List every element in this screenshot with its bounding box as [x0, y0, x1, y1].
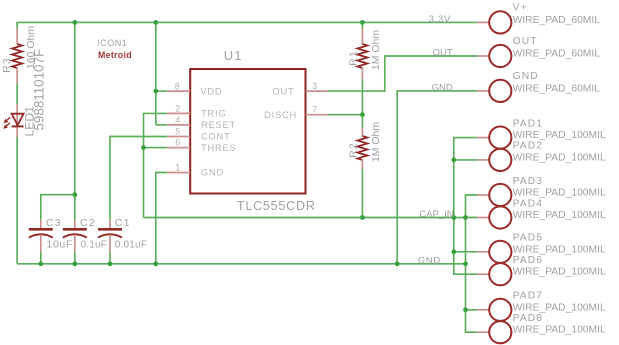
- svg-text:GND: GND: [201, 168, 224, 178]
- svg-text:TRIG: TRIG: [201, 109, 226, 119]
- pin 3 OUT: [272, 81, 327, 96]
- svg-text:WIRE_PAD_60MIL: WIRE_PAD_60MIL: [513, 83, 601, 94]
- svg-text:3.3V: 3.3V: [429, 14, 451, 25]
- pad PAD5 WIRE_PAD_100MIL: [477, 233, 606, 263]
- wire DISCH from pin7: [328, 114, 363, 116]
- svg-text:OUT: OUT: [272, 86, 294, 96]
- svg-text:GND: GND: [418, 255, 441, 266]
- wire CONT to C1: [110, 137, 167, 220]
- svg-text:CAP_IN: CAP_IN: [419, 209, 453, 220]
- wire C3 bottom: [40, 252, 42, 264]
- wire CAP_IN horizontal: [144, 217, 478, 219]
- wire TRIG/THRES column to CAP_IN: [144, 113, 168, 217]
- wire R3 to LED1: [16, 84, 18, 105]
- svg-text:TLC555CDR: TLC555CDR: [237, 199, 316, 213]
- svg-text:PAD6: PAD6: [513, 255, 544, 266]
- svg-text:R2: R2: [347, 142, 359, 158]
- svg-text:GND: GND: [513, 71, 539, 82]
- pad GND WIRE_PAD_60MIL: [477, 71, 600, 102]
- wire LED1 to GND bus: [16, 137, 18, 264]
- svg-text:C3: C3: [46, 217, 62, 229]
- svg-text:PAD4: PAD4: [513, 198, 544, 209]
- svg-text:WIRE_PAD_100MIL: WIRE_PAD_100MIL: [513, 302, 606, 313]
- svg-text:5: 5: [175, 127, 180, 137]
- svg-text:4: 4: [175, 115, 180, 125]
- junction node dots: [38, 20, 468, 312]
- svg-text:5988110107F: 5988110107F: [31, 49, 46, 131]
- svg-text:THRES: THRES: [201, 143, 237, 153]
- svg-text:WIRE_PAD_100MIL: WIRE_PAD_100MIL: [513, 210, 606, 221]
- pin 6 THRES: [167, 138, 236, 153]
- pad V+ WIRE_PAD_60MIL: [477, 2, 600, 33]
- svg-text:8: 8: [175, 82, 180, 92]
- svg-text:R1: R1: [347, 50, 359, 66]
- pin 7 DISCH: [264, 105, 327, 120]
- svg-text:PAD5: PAD5: [513, 233, 544, 244]
- svg-text:1: 1: [175, 163, 180, 173]
- svg-text:PAD7: PAD7: [513, 291, 544, 302]
- op-amp U1 box TLC555CDR: [190, 48, 315, 213]
- svg-text:WIRE_PAD_60MIL: WIRE_PAD_60MIL: [513, 49, 601, 60]
- wire C3 top jog: [41, 195, 75, 220]
- pin 2 TRIG: [167, 103, 226, 118]
- pin 5 CONT: [167, 127, 230, 142]
- svg-text:ICON1: ICON1: [97, 38, 128, 48]
- svg-text:WIRE_PAD_100MIL: WIRE_PAD_100MIL: [513, 152, 606, 163]
- capacitor C2: [63, 217, 107, 252]
- svg-text:PAD1: PAD1: [513, 118, 544, 129]
- svg-text:PAD3: PAD3: [513, 176, 544, 187]
- svg-text:6: 6: [175, 138, 180, 148]
- pad PAD3 WIRE_PAD_100MIL: [477, 176, 606, 206]
- wire C2 bottom: [74, 252, 76, 264]
- resistor R1: [347, 22, 382, 114]
- LED LED1: [4, 49, 47, 137]
- pad PAD8 WIRE_PAD_100MIL: [477, 313, 606, 343]
- svg-text:1M Ohm: 1M Ohm: [370, 30, 382, 71]
- svg-text:PAD2: PAD2: [513, 141, 544, 152]
- svg-text:2: 2: [175, 103, 180, 113]
- svg-text:RESET: RESET: [201, 120, 236, 130]
- svg-text:PAD8: PAD8: [513, 313, 544, 324]
- capacitor C1: [98, 217, 147, 252]
- resistor R3: [1, 26, 37, 84]
- svg-text:3: 3: [312, 81, 317, 91]
- wire GND bus bottom: [17, 263, 465, 265]
- capacitor C3: [29, 217, 73, 252]
- wire line B pads: [466, 195, 478, 332]
- pad OUT WIRE_PAD_60MIL: [477, 36, 600, 67]
- pin 8 VDD: [167, 82, 222, 97]
- svg-text:U1: U1: [224, 48, 243, 63]
- svg-text:7: 7: [312, 105, 317, 115]
- wire GND pin1 column: [156, 173, 167, 264]
- svg-text:CONT: CONT: [201, 132, 231, 142]
- svg-text:1M Ohm: 1M Ohm: [370, 122, 382, 163]
- wire VDD/RESET column: [156, 22, 167, 125]
- pin 1 GND: [167, 163, 224, 178]
- pin 4 RESET: [167, 115, 236, 130]
- svg-text:Metroid: Metroid: [98, 50, 132, 60]
- resistor R2: [347, 115, 382, 218]
- pad PAD6 WIRE_PAD_100MIL: [477, 255, 606, 285]
- pad PAD4 WIRE_PAD_100MIL: [477, 198, 606, 228]
- wire line A pads: [454, 138, 478, 275]
- svg-text:0.01uF: 0.01uF: [115, 239, 147, 250]
- svg-text:10uF: 10uF: [47, 238, 73, 250]
- svg-text:VDD: VDD: [200, 86, 222, 96]
- svg-text:WIRE_PAD_100MIL: WIRE_PAD_100MIL: [513, 130, 606, 141]
- svg-text:WIRE_PAD_60MIL: WIRE_PAD_60MIL: [513, 15, 601, 26]
- wire OUT from pin3: [328, 56, 478, 91]
- svg-text:0.1uF: 0.1uF: [81, 239, 108, 250]
- pad PAD7 WIRE_PAD_100MIL: [477, 291, 606, 321]
- wire 3.3V top bus: [17, 22, 477, 28]
- svg-text:V+: V+: [513, 2, 528, 13]
- svg-text:WIRE_PAD_100MIL: WIRE_PAD_100MIL: [513, 188, 606, 199]
- svg-text:WIRE_PAD_100MIL: WIRE_PAD_100MIL: [513, 267, 606, 278]
- svg-text:DISCH: DISCH: [264, 110, 297, 120]
- pad PAD2 WIRE_PAD_100MIL: [477, 141, 606, 171]
- svg-text:C2: C2: [80, 217, 96, 229]
- svg-text:C1: C1: [115, 217, 131, 229]
- svg-text:OUT: OUT: [513, 36, 538, 47]
- wire GND pad column: [397, 91, 477, 264]
- svg-text:R3: R3: [1, 57, 13, 73]
- wire C2 column from top bus: [74, 22, 76, 219]
- wire C1 bottom: [109, 252, 111, 264]
- svg-text:GND: GND: [432, 83, 453, 94]
- svg-text:WIRE_PAD_100MIL: WIRE_PAD_100MIL: [513, 244, 606, 255]
- pad PAD1 WIRE_PAD_100MIL: [477, 118, 606, 148]
- svg-text:OUT: OUT: [433, 48, 453, 59]
- svg-text:WIRE_PAD_100MIL: WIRE_PAD_100MIL: [513, 325, 606, 336]
